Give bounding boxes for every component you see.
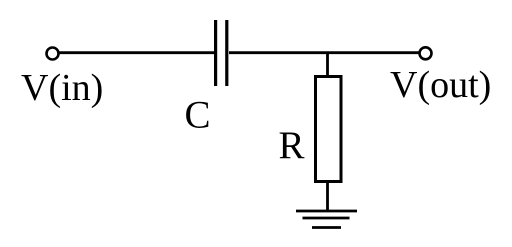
svg-text:C: C xyxy=(185,94,211,137)
ground xyxy=(296,211,357,228)
wire input to capacitor xyxy=(59,51,214,54)
label C xyxy=(185,94,211,137)
wire resistor to ground xyxy=(326,181,329,211)
label V(in) xyxy=(21,67,103,109)
wire capacitor to output xyxy=(229,51,419,54)
label R xyxy=(279,124,305,167)
svg-text:V(out): V(out) xyxy=(390,64,491,106)
node junction to resistor xyxy=(326,52,329,77)
capacitor C xyxy=(216,20,227,86)
resistor R xyxy=(316,77,342,182)
svg-text:V(in): V(in) xyxy=(21,67,103,109)
terminal output xyxy=(420,47,432,59)
terminal input xyxy=(47,48,59,60)
svg-text:R: R xyxy=(279,124,305,167)
label V(out) xyxy=(390,64,491,106)
